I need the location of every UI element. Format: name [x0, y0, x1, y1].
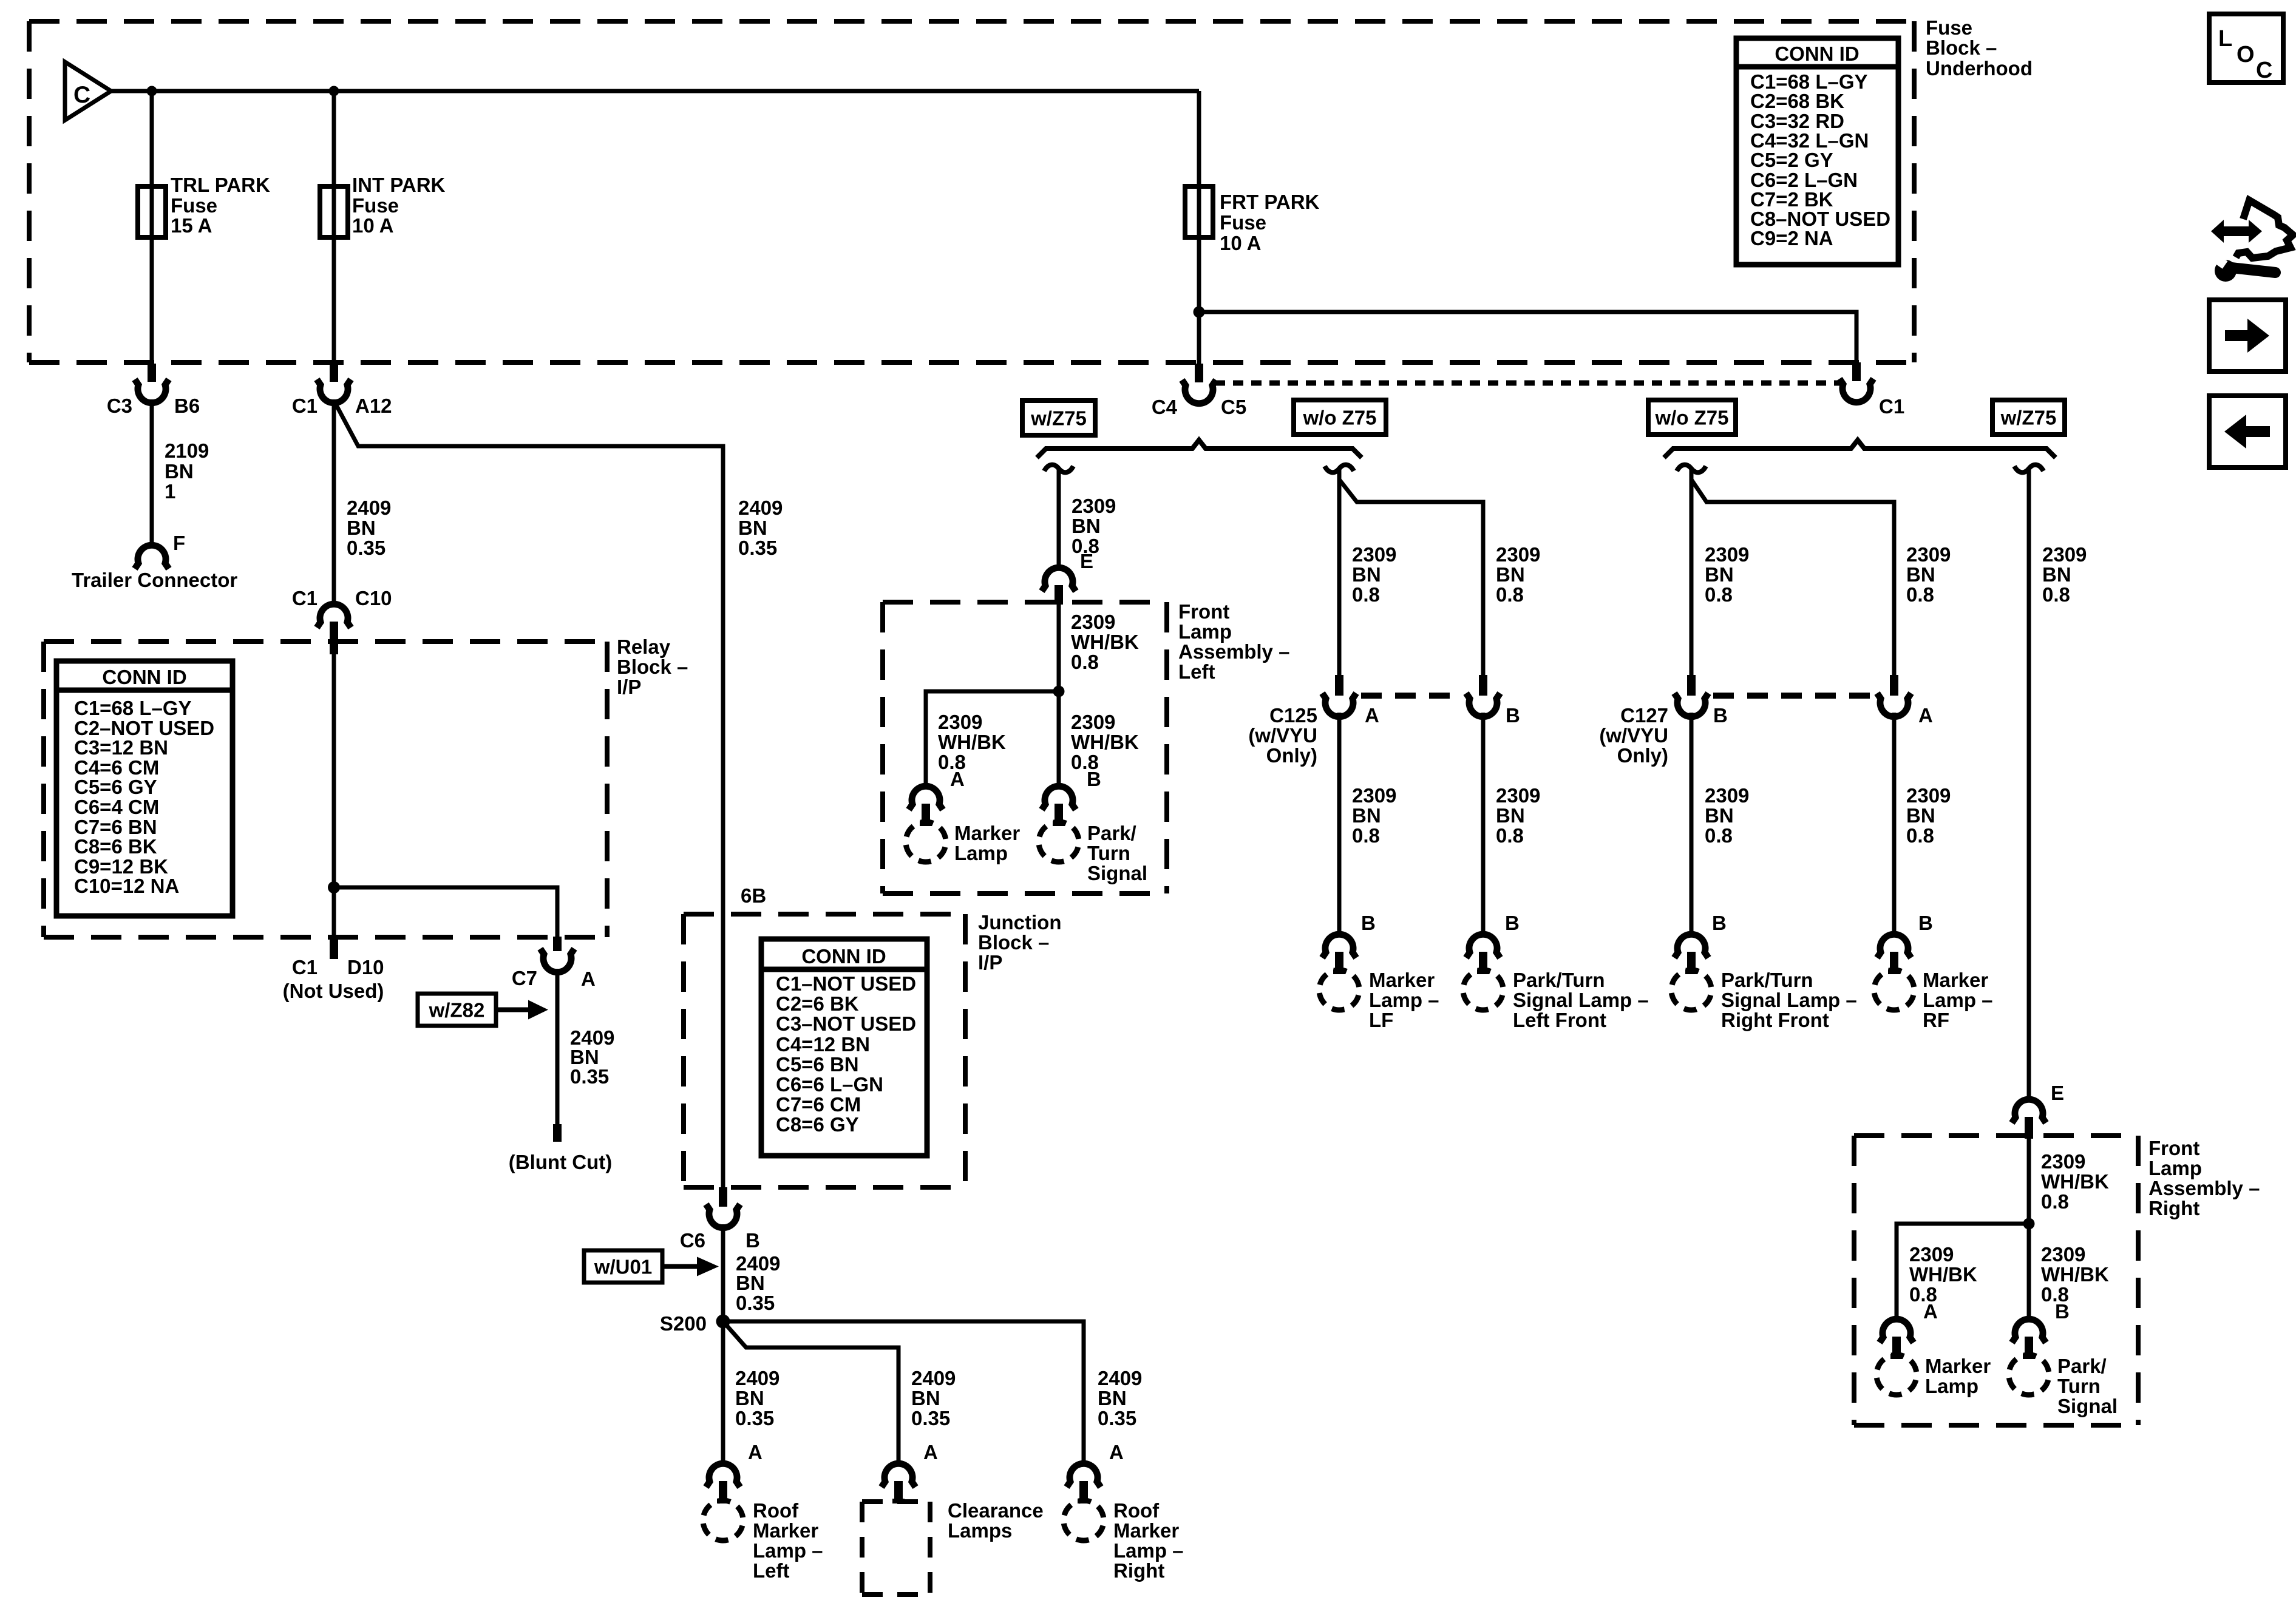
- svg-text:C2=68 BK: C2=68 BK: [1750, 90, 1844, 112]
- svg-text:10 A: 10 A: [1220, 232, 1261, 254]
- connector C125 A: [1322, 675, 1379, 727]
- pin B park/turn LF: [1466, 912, 1520, 974]
- marker lamp LF: [1315, 966, 1439, 1031]
- svg-text:C5: C5: [1221, 396, 1246, 418]
- blunt cut stub: [509, 1124, 612, 1173]
- FRT PARK fuse wire: [1197, 91, 1201, 364]
- dotted connector link C5 to C1: [1215, 381, 1843, 386]
- A12 branch diagonal to junction block wire: [334, 401, 723, 1188]
- svg-text:Clearance: Clearance: [948, 1499, 1044, 1522]
- svg-text:C7: C7: [512, 967, 537, 989]
- svg-text:2409: 2409: [735, 1367, 779, 1389]
- svg-text:E: E: [1080, 550, 1093, 572]
- svg-text:WH/BK: WH/BK: [1071, 731, 1139, 753]
- svg-text:Lamp –: Lamp –: [1369, 989, 1439, 1011]
- svg-text:2309: 2309: [2042, 543, 2087, 566]
- svg-text:0.8: 0.8: [1906, 583, 1934, 606]
- svg-text:B: B: [1361, 912, 1376, 934]
- svg-text:2309: 2309: [1705, 543, 1749, 566]
- option box w/o Z75 mid: [1294, 400, 1386, 435]
- svg-text:15 A: 15 A: [171, 214, 212, 237]
- junction dot right assembly: [2023, 1218, 2035, 1230]
- wire C125 A to marker LF: [1337, 713, 1342, 936]
- pin B park/turn RF: [1674, 912, 1727, 974]
- junction dot left assembly: [1053, 686, 1065, 697]
- wire C127 A to marker RF: [1892, 713, 1897, 936]
- CONN ID table junction block: [761, 939, 927, 1156]
- svg-text:CONN ID: CONN ID: [801, 945, 886, 968]
- svg-text:Marker: Marker: [954, 822, 1020, 844]
- svg-text:2309: 2309: [1496, 784, 1540, 807]
- svg-text:A: A: [1109, 1441, 1124, 1463]
- svg-text:Fuse: Fuse: [1220, 211, 1266, 234]
- svg-text:C2=6 BK: C2=6 BK: [776, 992, 859, 1015]
- svg-text:C4=12 BN: C4=12 BN: [776, 1033, 870, 1056]
- svg-text:C6=6 L–GN: C6=6 L–GN: [776, 1073, 883, 1096]
- connector C4/C5: [1152, 364, 1246, 418]
- svg-text:Marker: Marker: [753, 1519, 818, 1542]
- relay block I/P dashed box: [44, 642, 607, 937]
- relay branch wire to C7: [334, 887, 557, 937]
- svg-text:B: B: [1506, 704, 1520, 727]
- svg-text:0.8: 0.8: [1705, 824, 1733, 847]
- svg-text:INT PARK: INT PARK: [352, 174, 446, 196]
- trailer connector arch F: [135, 545, 169, 569]
- dashed link C127: [1713, 693, 1873, 699]
- svg-text:Assembly –: Assembly –: [1178, 640, 1289, 663]
- svg-text:B6: B6: [174, 395, 200, 417]
- svg-text:2309: 2309: [1352, 543, 1396, 566]
- svg-text:BN: BN: [1352, 563, 1381, 586]
- svg-text:C7=6 CM: C7=6 CM: [776, 1093, 861, 1116]
- svg-text:BN: BN: [738, 517, 767, 539]
- connector E right: [2012, 1082, 2064, 1139]
- svg-text:2309: 2309: [1496, 543, 1540, 566]
- svg-text:2309: 2309: [938, 711, 982, 733]
- w/Z82 option box with arrow: [418, 994, 548, 1026]
- junction dot relay block: [328, 881, 340, 893]
- svg-text:0.8: 0.8: [1071, 651, 1099, 673]
- wire E to junction right: [2027, 1139, 2031, 1224]
- clearance lamps box: [862, 1499, 1044, 1595]
- svg-text:Underhood: Underhood: [1926, 57, 2033, 80]
- svg-text:Right: Right: [2148, 1197, 2199, 1219]
- vehicle hotspot icon: [2211, 200, 2293, 282]
- roof marker lamp left: [699, 1496, 823, 1582]
- svg-text:C125: C125: [1269, 704, 1317, 727]
- connector C6/B: [680, 1187, 760, 1252]
- svg-text:Turn: Turn: [2057, 1375, 2101, 1397]
- svg-text:Marker: Marker: [1925, 1355, 1991, 1377]
- wire 2309 BN to C127 B: [1690, 469, 1694, 675]
- svg-text:2309: 2309: [1705, 784, 1749, 807]
- svg-text:Lamp: Lamp: [1925, 1375, 1978, 1397]
- svg-text:Front: Front: [2148, 1137, 2199, 1159]
- svg-text:Block –: Block –: [617, 656, 688, 678]
- svg-text:Roof: Roof: [753, 1499, 799, 1522]
- wire to marker lamp right assembly: [1897, 1224, 2029, 1321]
- svg-text:Left: Left: [753, 1559, 790, 1582]
- svg-text:TRL PARK: TRL PARK: [171, 174, 270, 196]
- svg-text:Left Front: Left Front: [1513, 1009, 1606, 1031]
- svg-text:C4: C4: [1152, 396, 1178, 418]
- svg-text:1: 1: [165, 480, 175, 503]
- pin A marker lamp right: [1880, 1300, 1938, 1359]
- pin A roof marker left: [706, 1441, 763, 1503]
- connector C1/C10: [292, 587, 392, 654]
- branch wire to C125 B: [1339, 480, 1483, 675]
- svg-text:Block –: Block –: [1926, 36, 1997, 59]
- svg-text:w/o Z75: w/o Z75: [1302, 407, 1376, 429]
- svg-text:A: A: [923, 1441, 938, 1463]
- option box w/Z75 left: [1022, 401, 1095, 435]
- svg-text:Turn: Turn: [1087, 842, 1130, 864]
- connector C1 right: [1839, 362, 1904, 418]
- svg-text:C1: C1: [292, 956, 318, 978]
- svg-text:w/Z82: w/Z82: [429, 999, 485, 1022]
- svg-text:w/Z75: w/Z75: [2000, 407, 2057, 429]
- svg-text:0.8: 0.8: [2042, 583, 2070, 606]
- svg-text:Junction: Junction: [978, 911, 1062, 934]
- svg-text:C10: C10: [355, 587, 392, 609]
- svg-text:Park/: Park/: [1087, 822, 1136, 844]
- junction dot TRL: [147, 86, 157, 97]
- svg-text:Marker: Marker: [1113, 1519, 1179, 1542]
- brace under C1: [1664, 440, 2056, 458]
- svg-text:Lamp: Lamp: [954, 842, 1008, 864]
- park/turn signal lamp left front: [1459, 966, 1649, 1031]
- wire to park/turn right assembly: [2027, 1224, 2031, 1321]
- marker lamp RF: [1870, 966, 1993, 1031]
- svg-text:B: B: [1505, 912, 1520, 934]
- svg-text:A12: A12: [355, 395, 392, 417]
- svg-text:C6: C6: [680, 1229, 705, 1252]
- bus wire from triangle C: [111, 89, 1199, 93]
- svg-text:B: B: [1918, 912, 1933, 934]
- pin A roof marker right: [1067, 1441, 1124, 1503]
- svg-text:A: A: [748, 1441, 763, 1463]
- svg-text:2109: 2109: [165, 439, 209, 462]
- svg-text:Marker: Marker: [1923, 969, 1988, 991]
- svg-text:C: C: [2256, 58, 2272, 83]
- svg-text:2409: 2409: [911, 1367, 956, 1389]
- stub D10 not used: [283, 937, 384, 1002]
- splice S200: [660, 1312, 730, 1335]
- svg-text:BN: BN: [347, 517, 376, 539]
- TRL PARK fuse wire: [150, 91, 154, 364]
- svg-text:(Not Used): (Not Used): [283, 980, 384, 1002]
- connector C127 A: [1877, 675, 1933, 727]
- svg-text:0.35: 0.35: [736, 1292, 775, 1314]
- svg-text:Block –: Block –: [978, 931, 1049, 954]
- wire FRT junction to C1: [1199, 312, 1856, 364]
- LOC locator box: [2209, 14, 2283, 83]
- svg-text:2309: 2309: [1909, 1243, 1954, 1266]
- wire S200 to roof marker right: [723, 1321, 1084, 1466]
- svg-text:O: O: [2237, 42, 2255, 67]
- svg-text:C3: C3: [107, 395, 132, 417]
- svg-text:C9=2 NA: C9=2 NA: [1750, 227, 1833, 249]
- feed triangle C: [65, 62, 111, 120]
- svg-text:C10=12 NA: C10=12 NA: [74, 875, 179, 897]
- svg-text:2309: 2309: [2041, 1243, 2085, 1266]
- svg-text:WH/BK: WH/BK: [2041, 1263, 2109, 1286]
- fuse block underhood dashed box: [29, 21, 1914, 362]
- park/turn signal lamp right front: [1667, 966, 1857, 1031]
- roof marker lamp right: [1059, 1496, 1184, 1582]
- INT PARK fuse: [320, 174, 446, 237]
- svg-text:2409: 2409: [738, 497, 783, 519]
- svg-text:0.8: 0.8: [1705, 583, 1733, 606]
- svg-text:WH/BK: WH/BK: [1909, 1263, 1977, 1286]
- wire 2409 BN to S200: [723, 1224, 780, 1321]
- svg-text:Fuse: Fuse: [352, 194, 399, 217]
- svg-text:0.8: 0.8: [2041, 1190, 2069, 1213]
- wire E to junction left: [1057, 605, 1061, 691]
- svg-text:E: E: [2051, 1082, 2064, 1104]
- svg-text:2309: 2309: [1071, 611, 1115, 633]
- svg-text:Lamp –: Lamp –: [1923, 989, 1993, 1011]
- svg-text:WH/BK: WH/BK: [938, 731, 1006, 753]
- svg-text:RF: RF: [1923, 1009, 1949, 1031]
- svg-text:(w/VYU: (w/VYU: [1248, 724, 1317, 747]
- hyperlink arrow left box: [2209, 396, 2286, 467]
- svg-text:C1: C1: [1879, 395, 1904, 418]
- svg-text:10 A: 10 A: [352, 214, 393, 237]
- front lamp assembly left dashed box: [883, 602, 1167, 893]
- svg-text:2309: 2309: [1071, 711, 1115, 733]
- wire 2309 BN to C125 A: [1337, 469, 1342, 675]
- wire C127 B to park/turn RF: [1690, 713, 1694, 936]
- svg-text:0.8: 0.8: [1496, 583, 1524, 606]
- svg-text:Lamps: Lamps: [948, 1519, 1012, 1542]
- svg-text:Signal Lamp –: Signal Lamp –: [1721, 989, 1857, 1011]
- w/U01 option box with arrow: [584, 1250, 719, 1283]
- pin B park/turn right: [2012, 1300, 2070, 1359]
- svg-text:BN: BN: [1496, 804, 1525, 827]
- breakout hook w/Z75 far right: [2014, 465, 2043, 473]
- junction dot FRT branch: [1194, 307, 1205, 318]
- svg-text:B: B: [746, 1229, 760, 1252]
- svg-text:L: L: [2218, 26, 2232, 52]
- svg-text:BN: BN: [1705, 804, 1734, 827]
- svg-text:Assembly –: Assembly –: [2148, 1177, 2260, 1199]
- svg-text:0.8: 0.8: [1352, 824, 1380, 847]
- marker lamp right assembly: [1872, 1351, 1991, 1400]
- svg-text:WH/BK: WH/BK: [1071, 631, 1139, 653]
- svg-text:C5=6 GY: C5=6 GY: [74, 776, 157, 798]
- wire S200 to roof marker left: [721, 1321, 725, 1466]
- svg-text:C8=6 GY: C8=6 GY: [776, 1113, 859, 1136]
- wire C10 through relay block: [332, 654, 336, 937]
- svg-text:I/P: I/P: [617, 676, 641, 698]
- wire 2409 BN from C1/A12 down: [332, 399, 336, 606]
- hyperlink arrow right box: [2209, 300, 2286, 371]
- svg-text:2309: 2309: [1352, 784, 1396, 807]
- svg-text:Lamp: Lamp: [1178, 620, 1232, 643]
- pin B marker LF: [1322, 912, 1376, 974]
- wire 2109 BN to trailer connector: [150, 399, 154, 547]
- svg-text:Only): Only): [1266, 744, 1317, 767]
- svg-text:Signal: Signal: [2057, 1395, 2118, 1417]
- svg-text:Park/: Park/: [2057, 1355, 2107, 1377]
- marker lamp left assembly: [902, 818, 1021, 867]
- svg-text:2309: 2309: [2041, 1150, 2085, 1173]
- svg-text:0.8: 0.8: [1496, 824, 1524, 847]
- svg-text:BN: BN: [911, 1387, 940, 1409]
- svg-text:BN: BN: [1906, 804, 1935, 827]
- svg-text:0.35: 0.35: [911, 1407, 950, 1429]
- svg-text:Lamp: Lamp: [2148, 1157, 2202, 1179]
- option box w/Z75 far right: [1992, 400, 2065, 435]
- svg-text:Only): Only): [1617, 744, 1668, 767]
- svg-text:C3=12 BN: C3=12 BN: [74, 736, 168, 759]
- wire to marker lamp left assembly: [926, 691, 1059, 788]
- svg-text:BN: BN: [736, 1272, 765, 1294]
- FRT PARK fuse: [1185, 186, 1320, 254]
- connector C1/A12: [292, 364, 392, 417]
- svg-text:2309: 2309: [1072, 495, 1116, 517]
- svg-text:0.35: 0.35: [347, 537, 385, 559]
- svg-text:Trailer Connector: Trailer Connector: [72, 569, 237, 591]
- svg-text:Lamp –: Lamp –: [753, 1539, 823, 1562]
- junction block I/P dashed box: [684, 914, 965, 1187]
- svg-text:C6=4 CM: C6=4 CM: [74, 796, 159, 818]
- brace under C4/C5: [1037, 440, 1362, 458]
- breakout hook w/o Z75 right: [1677, 465, 1706, 473]
- svg-text:0.8: 0.8: [1352, 583, 1380, 606]
- pin B park/turn: [1042, 768, 1101, 826]
- dashed link C125: [1361, 693, 1462, 699]
- svg-text:(Blunt Cut): (Blunt Cut): [509, 1151, 612, 1173]
- svg-text:A: A: [581, 968, 596, 990]
- svg-text:(w/VYU: (w/VYU: [1599, 724, 1668, 747]
- svg-text:C: C: [73, 82, 90, 108]
- connector E left: [1042, 550, 1093, 605]
- breakout hook w/o Z75: [1325, 465, 1354, 473]
- svg-text:C1–NOT USED: C1–NOT USED: [776, 972, 916, 995]
- svg-text:B: B: [1713, 704, 1728, 727]
- connector C7/A: [512, 937, 596, 990]
- park/turn signal left assembly: [1034, 818, 1147, 884]
- branch wire to C127 A: [1691, 480, 1894, 675]
- CONN ID table relay block: [56, 661, 233, 916]
- svg-text:FRT PARK: FRT PARK: [1220, 191, 1320, 213]
- svg-text:0.35: 0.35: [570, 1065, 609, 1088]
- svg-text:Marker: Marker: [1369, 969, 1435, 991]
- front lamp assembly right dashed box: [1854, 1136, 2138, 1425]
- svg-text:A: A: [1923, 1300, 1938, 1323]
- svg-text:Signal: Signal: [1087, 862, 1147, 884]
- connector C3/B6: [107, 364, 200, 417]
- wire C125 B to park/turn LF: [1481, 713, 1486, 936]
- svg-text:Front: Front: [1178, 600, 1229, 623]
- svg-text:0.8: 0.8: [1906, 824, 1934, 847]
- svg-text:6B: 6B: [741, 884, 766, 907]
- svg-text:BN: BN: [1352, 804, 1381, 827]
- svg-text:2309: 2309: [1906, 784, 1951, 807]
- svg-text:BN: BN: [2042, 563, 2071, 586]
- park/turn signal right assembly: [2005, 1351, 2118, 1417]
- svg-text:CONN ID: CONN ID: [102, 666, 186, 688]
- svg-text:D10: D10: [347, 956, 384, 978]
- svg-text:Roof: Roof: [1113, 1499, 1160, 1522]
- svg-text:2409: 2409: [1098, 1367, 1142, 1389]
- svg-text:Fuse: Fuse: [171, 194, 217, 217]
- svg-text:LF: LF: [1369, 1009, 1393, 1031]
- svg-text:Right: Right: [1113, 1559, 1164, 1582]
- svg-text:2309: 2309: [1906, 543, 1951, 566]
- svg-text:F: F: [173, 532, 185, 554]
- wire 2309 BN to E left: [1057, 469, 1061, 570]
- svg-text:Park/Turn: Park/Turn: [1721, 969, 1813, 991]
- svg-text:C5=2 GY: C5=2 GY: [1750, 149, 1833, 171]
- svg-text:Fuse: Fuse: [1926, 16, 1972, 39]
- svg-text:C1=68 L–GY: C1=68 L–GY: [74, 697, 192, 719]
- svg-text:Relay: Relay: [617, 636, 671, 658]
- svg-text:C8=6 BK: C8=6 BK: [74, 835, 157, 858]
- svg-text:I/P: I/P: [978, 951, 1002, 974]
- svg-text:BN: BN: [165, 460, 194, 483]
- option box w/o Z75 right: [1648, 400, 1736, 435]
- svg-text:BN: BN: [1496, 563, 1525, 586]
- pin B marker RF: [1877, 912, 1933, 974]
- svg-text:2409: 2409: [347, 497, 391, 519]
- connector C125 B: [1466, 675, 1520, 727]
- wire S200 to clearance lamps: [723, 1321, 898, 1466]
- svg-text:B: B: [2055, 1300, 2070, 1323]
- breakout hook w/Z75 left: [1044, 465, 1073, 473]
- INT PARK fuse wire: [332, 91, 336, 364]
- svg-text:Park/Turn: Park/Turn: [1513, 969, 1605, 991]
- svg-text:S200: S200: [660, 1312, 707, 1335]
- svg-text:BN: BN: [1072, 515, 1101, 537]
- svg-text:0.35: 0.35: [1098, 1407, 1136, 1429]
- svg-text:B: B: [1087, 768, 1101, 790]
- svg-text:BN: BN: [735, 1387, 764, 1409]
- svg-text:CONN ID: CONN ID: [1775, 42, 1859, 65]
- junction dot INT: [329, 86, 339, 97]
- svg-text:Left: Left: [1178, 660, 1215, 683]
- svg-text:B: B: [1712, 912, 1727, 934]
- svg-text:w/Z75: w/Z75: [1030, 407, 1087, 430]
- wire 2309 BN right run: [2027, 469, 2031, 1101]
- CONN ID table underhood: [1736, 38, 1898, 265]
- svg-text:BN: BN: [1906, 563, 1935, 586]
- wire 2409 BN blunt cut: [557, 969, 614, 1124]
- svg-text:C1: C1: [292, 587, 318, 609]
- svg-text:BN: BN: [1098, 1387, 1127, 1409]
- svg-text:Right Front: Right Front: [1721, 1009, 1829, 1031]
- svg-text:WH/BK: WH/BK: [2041, 1170, 2109, 1193]
- connector C127 B: [1674, 675, 1728, 727]
- TRL PARK fuse: [138, 174, 270, 237]
- svg-text:C1: C1: [292, 395, 318, 417]
- svg-text:C5=6 BN: C5=6 BN: [776, 1053, 859, 1076]
- svg-text:w/U01: w/U01: [594, 1256, 652, 1278]
- wire to park/turn left assembly: [1057, 691, 1061, 788]
- svg-text:C127: C127: [1620, 704, 1668, 727]
- svg-text:A: A: [950, 768, 965, 790]
- pin A clearance lamps: [881, 1441, 938, 1503]
- svg-text:0.35: 0.35: [735, 1407, 774, 1429]
- svg-text:Signal Lamp –: Signal Lamp –: [1513, 989, 1649, 1011]
- svg-text:w/o Z75: w/o Z75: [1654, 407, 1728, 429]
- pin A marker lamp: [909, 768, 965, 826]
- svg-text:C3–NOT USED: C3–NOT USED: [776, 1012, 916, 1035]
- svg-text:0.35: 0.35: [738, 537, 777, 559]
- svg-text:BN: BN: [1705, 563, 1734, 586]
